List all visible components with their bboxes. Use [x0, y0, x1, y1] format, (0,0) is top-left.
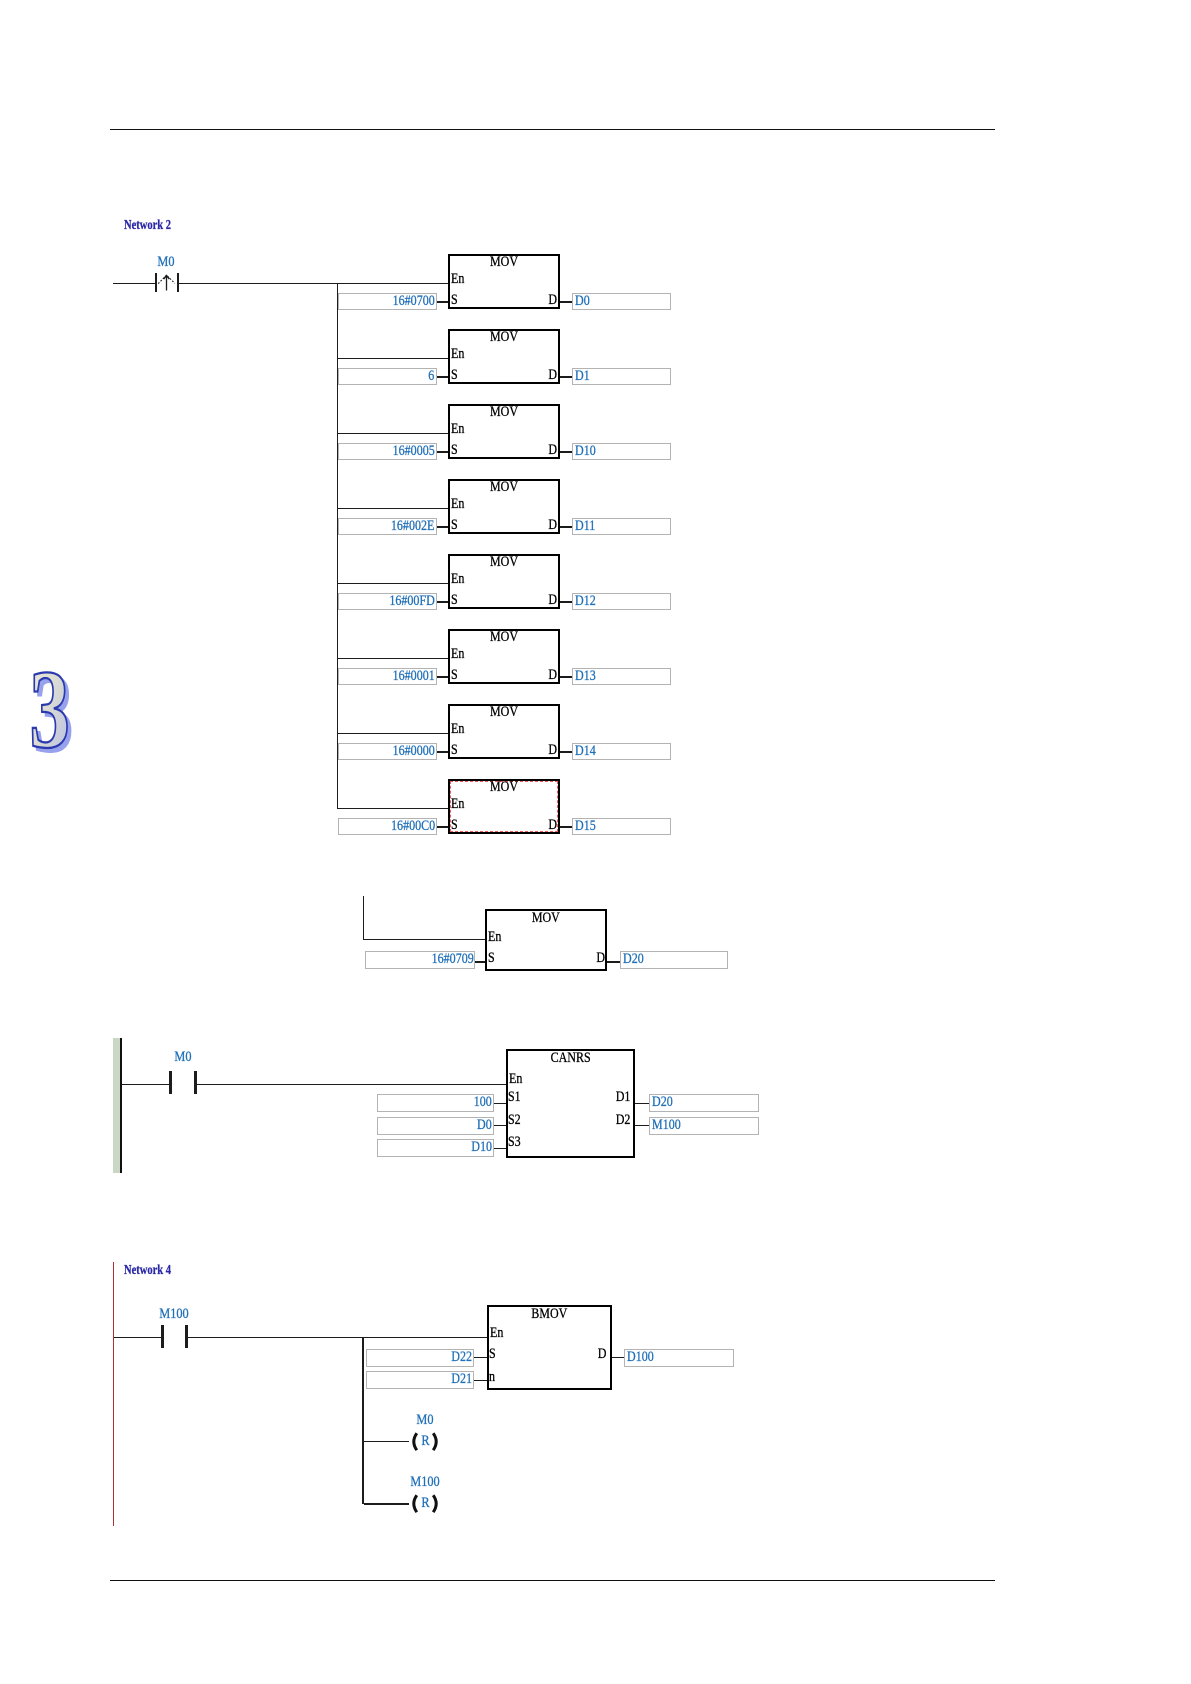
svg-text:3: 3	[30, 648, 70, 763]
